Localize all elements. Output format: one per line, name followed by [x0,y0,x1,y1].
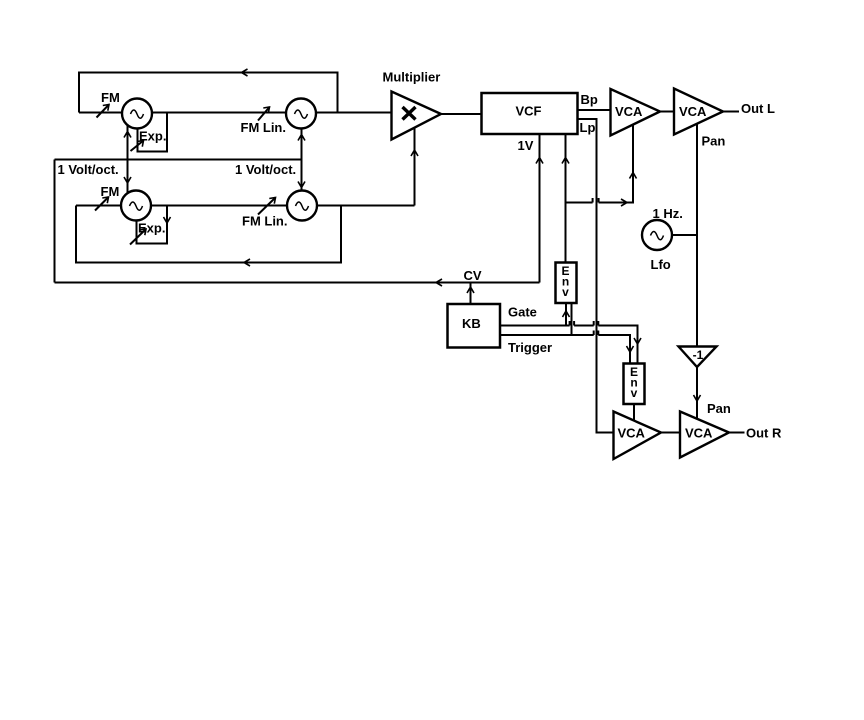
wire inverter to VCA4 [696,367,698,421]
arrowhead left top loop [242,69,248,76]
oscillator OSC3 [121,191,151,221]
mod arrow FM1 [97,105,110,118]
svg-text:Multiplier: Multiplier [383,69,441,84]
wire VCA2 pan column [696,122,698,347]
inverter -1 triangle [679,347,717,368]
oscillator OSC2 [286,99,316,129]
wire trigger to env1 [571,303,573,335]
VCA2 triangle [674,89,723,135]
box Env2 [624,364,645,405]
svg-text:Pan: Pan [707,401,731,416]
wire env2 to VCA3 [633,404,635,424]
svg-text:VCA: VCA [615,104,643,119]
sine glyph OSC2 [295,110,308,118]
sine glyph OSC4 [296,202,309,210]
svg-text:v: v [631,386,638,400]
svg-text:Out L: Out L [741,101,775,116]
arrowhead down into OSC3 [124,177,131,183]
wire 1 Volt/oct bus [55,159,302,161]
VCA4 triangle [680,412,729,458]
wire VCA3 to VCA4 [661,432,680,434]
wire env1 to VCA1 branch [566,120,634,203]
sine glyph OSC1 [131,110,144,118]
arrowhead up VCF 1V [536,158,543,164]
arrowhead left CV line [436,279,442,286]
sine glyph LFO [651,232,664,240]
wire VCF 1V column [539,134,541,283]
svg-text:Gate: Gate [508,305,537,320]
wire oscillator row 1 [79,112,392,114]
svg-text:Pan: Pan [702,134,726,149]
mod arrowhead Exp1 [137,141,143,147]
box Env1 [556,263,577,304]
mod arrow FM Lin 1 [258,107,270,121]
svg-text:Bp: Bp [581,92,598,107]
svg-text:1 Volt/oct.: 1 Volt/oct. [235,162,296,177]
oscillator OSC4 [287,191,317,221]
wire out L stub [723,111,739,113]
svg-text:FM Lin.: FM Lin. [241,120,287,135]
svg-text:Out R: Out R [746,426,782,441]
wire osc2 pitch column [301,126,303,192]
svg-text:KB: KB [462,316,481,331]
box KB [448,304,501,348]
svg-text:Lfo: Lfo [651,257,671,272]
wire oscillator row 2 [76,205,415,207]
hop ticks env1 branch [593,198,599,203]
box Exp2 input [137,206,168,244]
arrowhead left bottom loop [244,259,250,266]
wire KB CV stub [470,283,472,305]
svg-text:1 Hz.: 1 Hz. [653,206,683,221]
mod arrow FM2 [95,197,109,211]
svg-text:v: v [562,285,569,299]
wire CV left riser [54,160,56,283]
arrowhead up into OSC1 [124,132,131,138]
mod arrow Exp2 [130,229,146,245]
wire top feedback loop [79,73,338,113]
VCA3 triangle [614,412,662,460]
arrowhead down trigger env2 [627,346,634,352]
arrowhead up multiplier input [411,150,418,156]
svg-text:-1: -1 [693,348,704,362]
arrowhead right env1 branch [621,199,627,206]
arrowhead down pan VCA4 [694,395,701,401]
wire VCA1 to VCA2 [660,111,674,113]
oscillator LFO [642,220,672,250]
svg-text:VCA: VCA [679,104,707,119]
box VCF [482,93,578,134]
mod arrowhead Exp2 [140,229,146,235]
multiplier triangle [392,92,442,140]
box Exp1 input [138,113,168,152]
svg-text:1V: 1V [518,138,534,153]
svg-text:1 Volt/oct.: 1 Volt/oct. [58,162,119,177]
sine glyph OSC3 [130,202,143,210]
wire VCF env CV column [565,134,567,263]
wire multiplier output [441,113,482,115]
arrowhead up VCA1 CV [630,173,637,179]
svg-text:Lp: Lp [580,120,596,135]
arrowhead down Exp2 feedback [164,217,171,223]
svg-text:Exp.: Exp. [139,129,166,144]
arrowhead down into OSC4 [298,182,305,188]
arrowhead up into OSC2 [298,135,305,141]
svg-text:FM: FM [101,90,120,105]
wire gate to env1 [565,303,567,326]
hop ticks gate [570,321,599,326]
wire out R stub [729,432,745,434]
wire bottom feedback loop [76,206,341,263]
mod arrowhead FM Lin 1 [263,107,269,113]
svg-text:FM Lin.: FM Lin. [242,214,288,229]
wire trigger [500,335,630,364]
oscillator OSC1 [122,99,152,129]
hop ticks trigger [594,331,599,336]
wire VCF Bp output [578,109,611,111]
svg-text:VCF: VCF [516,104,542,119]
wire gate [500,326,638,364]
svg-text:VCA: VCA [685,426,713,441]
svg-text:Exp.: Exp. [138,221,165,236]
arrowhead up KB CV [467,287,474,293]
wire LFO output [672,234,697,236]
mod arrowhead FM2 [102,197,108,203]
multiplier X symbol [403,107,416,120]
svg-text:VCA: VCA [618,426,646,441]
arrowhead up gate env1 [563,311,570,317]
VCA1 triangle [611,89,661,136]
svg-text:FM: FM [101,184,120,199]
wire osc1 pitch column [127,124,129,194]
arrowhead down gate env2 [634,338,641,344]
svg-text:Trigger: Trigger [508,340,552,355]
wire KB CV line [55,282,540,284]
mod arrow FM Lin 2 [258,198,276,215]
svg-text:CV: CV [464,268,482,283]
wire multiplier lower input [414,122,416,206]
arrowhead up VCF env [562,158,569,164]
mod arrowhead FM Lin 2 [269,198,275,204]
mod arrow Exp1 [131,141,144,152]
mod arrowhead FM1 [103,105,109,111]
wire VCF Lp output [578,119,614,433]
